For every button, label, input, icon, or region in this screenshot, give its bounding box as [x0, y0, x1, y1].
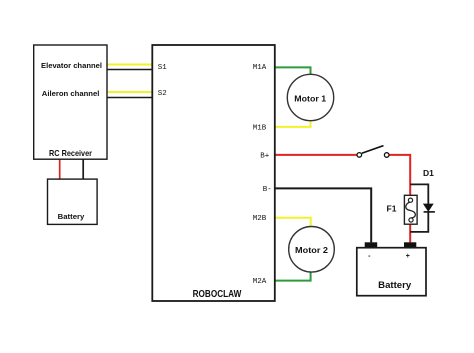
svg-text:+: +	[406, 253, 410, 260]
svg-text:S1: S1	[158, 64, 168, 72]
svg-text:B-: B-	[263, 186, 272, 194]
svg-text:M2A: M2A	[253, 278, 267, 286]
svg-text:B+: B+	[260, 152, 270, 160]
svg-text:M1A: M1A	[253, 64, 267, 72]
svg-text:ROBOCLAW: ROBOCLAW	[193, 288, 242, 300]
svg-text:F1: F1	[387, 204, 397, 214]
svg-text:Motor 1: Motor 1	[294, 93, 326, 103]
svg-text:Motor 2: Motor 2	[295, 245, 328, 255]
svg-text:Aileron channel: Aileron channel	[42, 89, 100, 98]
svg-text:Battery: Battery	[378, 280, 411, 290]
svg-text:S2: S2	[158, 90, 167, 98]
svg-text:M2B: M2B	[253, 215, 267, 223]
svg-text:M1B: M1B	[253, 124, 267, 132]
svg-text:Battery: Battery	[58, 212, 85, 221]
svg-text:RC Receiver: RC Receiver	[49, 148, 93, 158]
svg-text:D1: D1	[423, 168, 434, 178]
svg-text:Elevator channel: Elevator channel	[41, 61, 102, 70]
